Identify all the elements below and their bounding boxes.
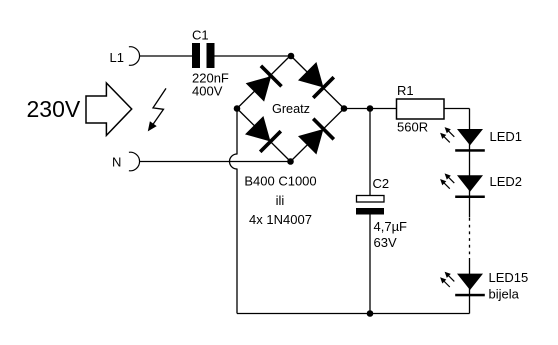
svg-text:N: N <box>112 155 121 170</box>
svg-text:R1: R1 <box>397 83 414 98</box>
svg-text:4x 1N4007: 4x 1N4007 <box>249 212 312 227</box>
svg-text:B400 C1000: B400 C1000 <box>244 174 316 189</box>
svg-text:LED2: LED2 <box>490 174 523 189</box>
svg-text:LED1: LED1 <box>490 129 523 144</box>
svg-text:400V: 400V <box>192 84 223 99</box>
svg-text:C2: C2 <box>373 176 390 191</box>
svg-text:bijela: bijela <box>489 287 520 302</box>
svg-text:ili: ili <box>276 193 285 208</box>
svg-text:4,7µF: 4,7µF <box>374 219 408 234</box>
svg-text:560R: 560R <box>397 120 428 135</box>
svg-text:230V: 230V <box>27 96 81 122</box>
svg-text:LED15: LED15 <box>489 270 529 285</box>
svg-text:L1: L1 <box>110 50 124 65</box>
svg-text:63V: 63V <box>374 235 397 250</box>
svg-text:Greatz: Greatz <box>272 102 310 116</box>
svg-text:C1: C1 <box>192 28 209 43</box>
